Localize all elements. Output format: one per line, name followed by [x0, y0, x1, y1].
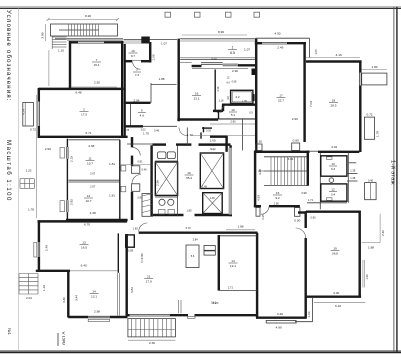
wall room2 left [38, 88, 40, 102]
svg-text:4.90: 4.90 [274, 32, 280, 36]
svg-text:0.90: 0.90 [294, 219, 300, 223]
svg-text:2.49: 2.49 [277, 46, 283, 50]
svg-text:10: 10 [131, 49, 135, 53]
svg-text:3.28: 3.28 [258, 169, 262, 175]
lobby bottom wall [254, 205, 261, 207]
step L bottom [312, 298, 314, 322]
svg-text:2.92: 2.92 [94, 81, 100, 85]
svg-text:1.04: 1.04 [307, 311, 311, 317]
toilet circle [329, 178, 334, 183]
svg-text:3.81: 3.81 [130, 287, 134, 293]
svg-text:1.38: 1.38 [350, 168, 356, 172]
svg-text:1.38: 1.38 [350, 176, 356, 180]
svg-text:0.90: 0.90 [310, 216, 316, 220]
exterior shaft right [364, 117, 374, 139]
hatched duct left of core [142, 194, 153, 217]
stair lobby left wall [254, 151, 256, 208]
svg-text:3.10: 3.10 [211, 301, 217, 305]
wall room4 top [38, 220, 128, 222]
closet room11 [186, 245, 199, 268]
stair right wall [307, 151, 309, 186]
window room2 left [37, 102, 39, 127]
svg-text:14: 14 [231, 259, 235, 263]
svg-text:6.71: 6.71 [85, 131, 91, 135]
corridor below core dim [226, 229, 255, 231]
svg-text:1.07: 1.07 [244, 48, 250, 52]
svg-text:0.98: 0.98 [301, 191, 307, 195]
window room3a left [66, 147, 68, 159]
frame bottom border [0, 349, 401, 351]
svg-text:6.10: 6.10 [335, 304, 341, 308]
svg-text:2.84: 2.84 [193, 238, 199, 242]
svg-text:Масштаб 1:100: Масштаб 1:100 [5, 140, 11, 202]
svg-text:1.19: 1.19 [42, 285, 46, 291]
svg-text:2.98: 2.98 [94, 310, 100, 314]
room11 top wall [139, 231, 258, 233]
svg-text:1.88: 1.88 [158, 77, 164, 81]
left outer dim line [36, 95, 38, 218]
svg-text:3.01: 3.01 [287, 157, 293, 161]
door arcs vestibule [132, 147, 140, 155]
right rooms partition [319, 153, 321, 209]
room11 right wall [256, 233, 258, 318]
svg-text:лист А: лист А [61, 332, 66, 345]
svg-text:16: 16 [195, 92, 199, 96]
svg-text:1.09: 1.09 [151, 54, 155, 60]
room 1 walls [69, 41, 78, 43]
svg-text:1.81: 1.81 [109, 162, 115, 166]
wall step down [67, 270, 69, 318]
svg-text:5.6: 5.6 [191, 254, 195, 258]
svg-text:22.7: 22.7 [278, 99, 284, 103]
svg-text:3.4: 3.4 [331, 193, 336, 197]
divider room8/9 [303, 42, 305, 142]
balcony center top [180, 38, 256, 40]
svg-text:10.7: 10.7 [87, 162, 93, 166]
svg-text:2.82: 2.82 [69, 199, 73, 205]
niche lines right [349, 162, 357, 164]
hall 5.1 [218, 118, 255, 120]
svg-text:2.01: 2.01 [26, 296, 32, 300]
stair treads [264, 156, 308, 158]
svg-text:7.03: 7.03 [309, 101, 313, 107]
core divider [177, 145, 179, 216]
window room9 right [359, 73, 361, 86]
wall bottom (room 13.1) [68, 316, 88, 318]
svg-text:6.50: 6.50 [211, 56, 217, 60]
svg-text:2.04: 2.04 [133, 98, 139, 102]
svg-text:1.70: 1.70 [143, 132, 149, 136]
svg-text:21.1: 21.1 [194, 97, 200, 101]
svg-text:1.80: 1.80 [186, 209, 192, 213]
duct boxes [132, 166, 140, 174]
svg-text:4.38: 4.38 [90, 211, 96, 215]
svg-text:0.20: 0.20 [256, 140, 262, 144]
svg-text:2.49: 2.49 [44, 245, 48, 251]
wall mid-block mid [124, 102, 151, 104]
svg-text:15: 15 [276, 191, 280, 195]
svg-text:15.1: 15.1 [93, 63, 99, 67]
svg-text:16: 16 [187, 171, 191, 175]
balcony bottom [128, 319, 175, 337]
dim 2.89 [44, 24, 46, 41]
svg-text:1.18: 1.18 [219, 99, 224, 102]
svg-text:2.90: 2.90 [232, 69, 238, 73]
pilaster r8 b [292, 143, 300, 151]
svg-text:3.70: 3.70 [185, 226, 191, 230]
svg-text:6.40: 6.40 [81, 264, 87, 268]
wall room4 bottom [36, 270, 70, 272]
svg-text:0.26: 0.26 [206, 129, 211, 132]
svg-text:17: 17 [279, 94, 283, 98]
svg-text:4.16: 4.16 [336, 53, 342, 57]
svg-text:Условные обозначения:: Условные обозначения: [5, 10, 11, 102]
svg-text:7: 7 [96, 58, 98, 62]
svg-text:1.10: 1.10 [58, 49, 64, 53]
room10 top wall [306, 210, 361, 212]
svg-text:21: 21 [147, 275, 151, 279]
svg-text:2.67: 2.67 [90, 185, 96, 189]
stair lower steps [52, 36, 66, 38]
svg-text:2.67: 2.67 [90, 172, 96, 176]
bottom wall lobby part [256, 316, 307, 318]
wall room8/9 bottom [255, 151, 310, 153]
room11 left wall [125, 234, 127, 317]
svg-text:4.00: 4.00 [333, 291, 339, 295]
svg-text:3.49: 3.49 [277, 312, 283, 316]
wall vestibule/apartment [131, 137, 133, 147]
wall block [141, 37, 150, 44]
svg-text:4.53: 4.53 [256, 195, 260, 201]
svg-text:0.46: 0.46 [154, 129, 160, 133]
frame top border [0, 6, 401, 8]
svg-text:26.8: 26.8 [332, 252, 338, 256]
window room3b left [66, 200, 68, 212]
svg-text:1.78: 1.78 [124, 128, 130, 132]
svg-text:14: 14 [92, 290, 96, 294]
svg-text:16.5: 16.5 [81, 246, 87, 250]
svg-text:2.71: 2.71 [228, 286, 234, 290]
svg-text:9.7: 9.7 [131, 54, 136, 58]
pilaster below [295, 208, 300, 217]
svg-text:2.99: 2.99 [45, 147, 51, 151]
dim 8.20 [48, 19, 118, 21]
stair mid-left [19, 179, 21, 189]
top marker squares [165, 12, 171, 17]
wall room1 left [69, 41, 71, 90]
duct squares r11 [204, 246, 215, 251]
svg-text:Лифт: Лифт [210, 147, 217, 151]
wall room1/r2 right [121, 41, 123, 138]
balcony left [23, 103, 34, 127]
svg-text:4.6: 4.6 [140, 114, 145, 118]
svg-text:13: 13 [82, 241, 86, 245]
elevator shaft 2 [200, 153, 223, 189]
partition [214, 70, 216, 111]
frame right border [393, 7, 395, 353]
kitchen right wall [119, 140, 121, 220]
svg-text:0.25: 0.25 [261, 214, 265, 220]
svg-text:0.81: 0.81 [137, 160, 143, 164]
svg-text:12: 12 [87, 194, 91, 198]
bath A [321, 156, 347, 176]
svg-text:6.5: 6.5 [230, 51, 235, 55]
room10 bottom wall [305, 295, 362, 297]
svg-text:2: 2 [83, 108, 85, 112]
dim 6.10 [314, 302, 366, 304]
svg-text:35.4: 35.4 [186, 176, 192, 180]
svg-text:7.3: 7.3 [135, 73, 140, 77]
svg-text:h=2.80: h=2.80 [140, 253, 144, 263]
svg-text:18: 18 [332, 99, 336, 103]
window room4 left [37, 242, 39, 257]
nook lines [150, 83, 152, 103]
svg-text:2.89: 2.89 [41, 32, 45, 38]
core gray pier [229, 148, 232, 215]
svg-text:3.40: 3.40 [62, 297, 66, 303]
wall mid-block upper [125, 60, 132, 62]
svg-text:12: 12 [331, 188, 335, 192]
wall room2 bottom [39, 136, 128, 138]
svg-text:3.44: 3.44 [74, 295, 78, 301]
wall room5 bottom [177, 118, 218, 120]
dim L right [379, 214, 381, 243]
svg-text:6.48: 6.48 [75, 91, 81, 95]
wall mid-block left [124, 44, 126, 137]
svg-text:1.05: 1.05 [314, 49, 318, 55]
svg-text:1.88: 1.88 [368, 246, 374, 250]
corridor walls [186, 128, 188, 146]
svg-text:10: 10 [231, 108, 235, 112]
svg-text:28.5: 28.5 [330, 104, 336, 108]
external stair top-left [51, 24, 118, 36]
wall room9 top [306, 60, 362, 62]
wall room4 right [117, 233, 119, 272]
svg-text:12.1: 12.1 [230, 264, 236, 268]
svg-text:3.3: 3.3 [331, 167, 336, 171]
svg-text:0.90: 0.90 [293, 139, 299, 143]
svg-text:1.80: 1.80 [371, 65, 377, 69]
svg-text:6.70: 6.70 [84, 222, 90, 226]
svg-text:4.74: 4.74 [22, 109, 26, 115]
sliver room right wall [149, 42, 151, 63]
svg-text:1: 1 [232, 46, 234, 50]
svg-text:0.72: 0.72 [30, 128, 36, 132]
wall room3 bottom [66, 219, 128, 221]
svg-text:1.75: 1.75 [217, 111, 222, 114]
svg-text:8.20: 8.20 [85, 14, 91, 18]
svg-text:4.99: 4.99 [276, 326, 282, 330]
balcony right mid [365, 183, 377, 200]
svg-text:1.70: 1.70 [187, 133, 193, 137]
svg-text:1-й этаж: 1-й этаж [390, 160, 397, 185]
svg-text:9.2: 9.2 [275, 196, 280, 200]
svg-text:1.83: 1.83 [133, 227, 139, 231]
elevator shaft 1 [155, 162, 177, 195]
right outer dim pair [362, 260, 364, 288]
bathroom room6 [231, 90, 253, 103]
svg-text:1.22: 1.22 [25, 169, 31, 173]
sheet label [57, 333, 59, 346]
wall room8 top [255, 42, 262, 44]
elevator shaft 3 [203, 193, 223, 214]
svg-text:1.81: 1.81 [109, 194, 115, 198]
bottom wall center [127, 314, 130, 316]
svg-text:1.88: 1.88 [237, 225, 243, 229]
svg-text:1.78: 1.78 [28, 208, 34, 212]
duct box r11 [126, 235, 135, 247]
svg-text:1.07: 1.07 [161, 42, 167, 46]
door marks r11 bottom [178, 300, 180, 313]
svg-text:1.35: 1.35 [242, 100, 247, 103]
wall room9 right [359, 61, 361, 73]
svg-text:13.1: 13.1 [91, 295, 97, 299]
dim 2.92 [71, 86, 117, 88]
wall room2 top [39, 88, 124, 90]
wall room5 left [177, 39, 179, 122]
balcony rail line [55, 38, 123, 40]
svg-text:7: 7 [136, 68, 138, 72]
wall room5 top [192, 65, 202, 67]
core outer walls [153, 143, 167, 145]
window bottom r11 [130, 314, 170, 316]
balcony right top [362, 73, 387, 85]
svg-text:2.90: 2.90 [292, 117, 298, 121]
pilaster r8 a [256, 144, 262, 151]
svg-text:0.58: 0.58 [232, 81, 237, 84]
hall step walls [222, 103, 257, 105]
svg-text:4.02: 4.02 [331, 145, 337, 149]
svg-text:2.19: 2.19 [69, 156, 73, 162]
svg-text:2.00: 2.00 [210, 139, 216, 143]
bath B [321, 184, 347, 201]
sidebar divider [18, 8, 20, 350]
svg-text:2.56: 2.56 [274, 202, 280, 206]
svg-text:2.56: 2.56 [156, 180, 160, 186]
svg-text:2.90: 2.90 [230, 119, 236, 123]
svg-text:0.40: 0.40 [368, 178, 374, 182]
svg-text:19: 19 [333, 247, 337, 251]
lobby west wall [298, 211, 306, 213]
svg-text:2.30: 2.30 [149, 341, 155, 345]
mid-block bottom wall [125, 125, 144, 127]
partition [130, 104, 132, 127]
window room5 top [201, 62, 223, 64]
svg-text:0.46: 0.46 [141, 168, 147, 172]
wall room4 left [38, 220, 40, 242]
svg-text:17.5: 17.5 [81, 113, 87, 117]
svg-text:2.40: 2.40 [381, 230, 385, 236]
svg-text:9: 9 [141, 109, 143, 113]
window room8 top [262, 41, 287, 43]
window bottom 13.1 [88, 315, 110, 317]
svg-text:13: 13 [331, 162, 335, 166]
svg-text:1.49: 1.49 [365, 274, 369, 280]
svg-text:10.7: 10.7 [85, 199, 91, 203]
svg-text:4.2: 4.2 [235, 95, 240, 99]
balcony corner pier [252, 69, 257, 76]
machine room [155, 160, 178, 162]
svg-text:1.49: 1.49 [209, 196, 215, 200]
room10 right wall [358, 211, 360, 298]
svg-text:0.72: 0.72 [366, 112, 372, 116]
svg-text:1.71: 1.71 [308, 198, 314, 202]
kitchen duct boxes [121, 165, 126, 171]
svg-text:1.78: 1.78 [375, 131, 379, 137]
svg-text:5.1: 5.1 [231, 113, 236, 117]
svg-text:0.58: 0.58 [128, 249, 134, 253]
room3 partition [69, 179, 121, 181]
room3 top line [69, 139, 121, 141]
room14 (12.1) walls [218, 235, 220, 291]
svg-text:11: 11 [88, 157, 91, 161]
svg-text:8.99: 8.99 [218, 30, 224, 34]
lift lobby jog walls [202, 127, 212, 129]
svg-text:1.48: 1.48 [202, 186, 207, 189]
svg-text:№1: №1 [7, 328, 12, 335]
stair bottom-left [19, 273, 38, 275]
window room1 top [78, 41, 104, 43]
porch entrance [266, 320, 296, 323]
wall room8 left [255, 39, 257, 152]
svg-text:2.26: 2.26 [217, 86, 220, 91]
wall room3 left [66, 139, 68, 147]
svg-text:4.38: 4.38 [88, 144, 94, 148]
svg-text:17.9: 17.9 [146, 280, 152, 284]
room below shaft1 [155, 196, 178, 198]
